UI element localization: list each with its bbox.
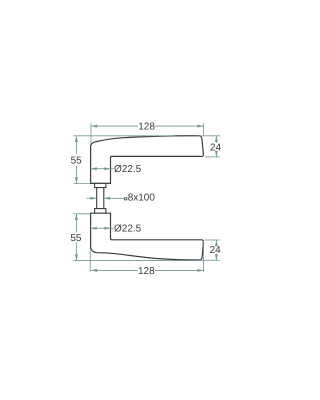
spindle right arrow [104,197,110,200]
bottom lever handle [91,213,204,260]
svg-text:128: 128 [138,266,155,277]
bottom 55 lower arrow [75,254,78,260]
bottom 24 upper extension line [205,239,220,241]
bottom 128 right extension line [203,241,205,272]
top 128 right arrow [197,125,203,128]
top 128 dimension line [91,125,138,127]
bottom 128 left extension line [89,248,91,272]
bottom diameter right arrow [104,227,110,230]
top 55 lower arrow [75,177,78,183]
bottom 55 upper extension line [74,213,91,215]
svg-text:8x100: 8x100 [128,192,156,203]
bottom 24 dimension line [215,240,217,246]
bottom 24 upper arrow [215,240,218,246]
bottom 55 lower extension line [74,260,194,262]
svg-text:24: 24 [210,142,222,153]
top 24 upper arrow [215,136,218,142]
top 128 left extension line [90,123,92,144]
bottom 128 right arrow [197,269,203,272]
top 24 lower extension line [205,156,220,158]
bottom 24 lower extension line [201,259,220,261]
top 128 left arrow [91,125,97,128]
top 128 right extension line [203,123,205,135]
top 55 lower extension line [74,183,91,185]
svg-text:128: 128 [138,121,155,132]
svg-text:55: 55 [71,156,83,167]
spindle 8x100 left leader line [87,197,97,199]
svg-text:55: 55 [70,233,82,244]
top 55 upper arrow [75,136,78,142]
bottom collar [95,209,106,214]
top 24 lower arrow [215,151,218,157]
bottom diameter left arrow [91,227,97,230]
spindle (square 8x100) [97,188,104,209]
spindle 8x100 right leader line [104,197,124,199]
square symbol for 8x100 [125,198,127,200]
bottom diameter 22.5 dimension line [91,227,114,229]
bottom 55 dimension line [75,214,77,233]
svg-text:Ø22.5: Ø22.5 [114,164,142,175]
bottom 128 dimension line [91,269,138,271]
top 24 upper extension line [201,135,220,137]
svg-text:24: 24 [210,245,222,256]
top diameter left arrow [91,167,97,170]
bottom 128 left arrow [91,269,97,272]
spindle left arrow [90,197,96,200]
top 24 dimension line [215,136,217,143]
top 55 upper extension line [74,135,176,137]
top lever handle [91,136,204,184]
bottom 55 upper arrow [75,214,78,220]
top diameter 22.5 dimension line [91,168,114,170]
top 55 dimension line [75,136,77,154]
top collar [95,183,106,187]
top diameter right arrow [104,167,110,170]
bottom 24 lower arrow [215,254,218,260]
svg-text:Ø22.5: Ø22.5 [114,224,142,235]
